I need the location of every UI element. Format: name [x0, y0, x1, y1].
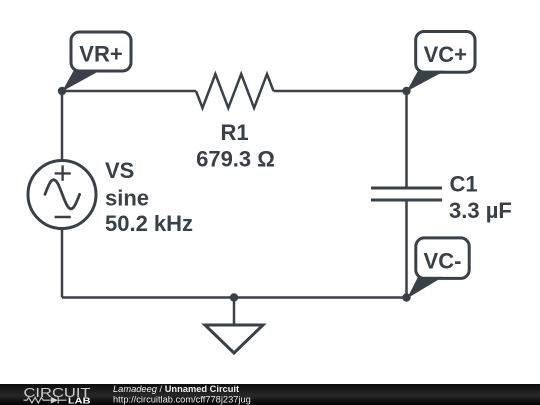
ground triangle	[205, 325, 263, 353]
node dot VC-	[402, 293, 410, 301]
wire bottom	[62, 296, 407, 299]
wire right side upper	[405, 91, 408, 188]
svg-text:R1: R1	[220, 120, 248, 145]
svg-text:VS: VS	[105, 158, 134, 183]
VS plus sign	[55, 165, 71, 180]
flag VR+ box	[71, 32, 131, 71]
wire left lower	[61, 229, 64, 298]
VS minus sign	[55, 216, 71, 218]
svg-text:50.2 kHz: 50.2 kHz	[105, 211, 193, 236]
capacitor C1 plates	[371, 188, 442, 200]
flag VC+ box	[416, 32, 475, 73]
CircuitLab logo resistor squiggle	[24, 397, 51, 403]
wire left upper	[61, 91, 64, 160]
VS sine wave	[45, 180, 80, 209]
svg-text:VC-: VC-	[424, 249, 462, 274]
svg-text:3.3 µF: 3.3 µF	[449, 198, 512, 223]
node dot ground junction	[230, 293, 238, 301]
voltage source VS circle	[28, 161, 96, 229]
flag VC- box	[416, 238, 469, 279]
flag VR+ tail	[62, 70, 101, 92]
flag VC- tail	[407, 277, 443, 299]
svg-text:sine: sine	[105, 186, 149, 211]
CircuitLab logo diode	[51, 397, 58, 404]
svg-text:LAB: LAB	[68, 395, 91, 405]
flag VC+ tail	[407, 71, 446, 92]
wire top left segment	[62, 90, 196, 93]
svg-text:VC+: VC+	[424, 42, 467, 67]
wire right side lower	[405, 200, 408, 298]
svg-text:http://circuitlab.com/cff778j2: http://circuitlab.com/cff778j237jug	[113, 394, 251, 404]
wire resistor to VC+ node	[274, 90, 407, 93]
svg-text:Lamadeeg / Unnamed Circuit: Lamadeeg / Unnamed Circuit	[113, 384, 239, 394]
svg-text:679.3 Ω: 679.3 Ω	[196, 146, 275, 171]
node dot VR+	[58, 87, 66, 95]
ground stub	[233, 298, 236, 326]
svg-text:C1: C1	[450, 172, 478, 197]
svg-text:VR+: VR+	[79, 42, 122, 67]
resistor R1	[196, 74, 274, 108]
node dot VC+	[402, 87, 410, 95]
